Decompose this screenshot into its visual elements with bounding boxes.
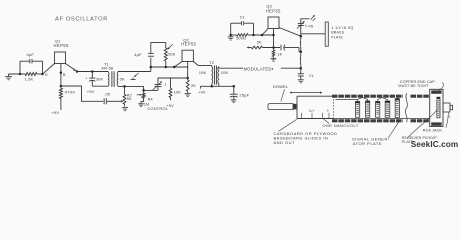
leader (rca jack)	[446, 112, 449, 127]
wire Q2 collector to T2	[198, 65, 212, 67]
node 500 bottom	[165, 66, 168, 69]
node T2 primary bottom	[211, 85, 214, 88]
wire	[254, 34, 274, 36]
capacitor 25uF	[230, 86, 250, 99]
wire +9V rail (T1)	[92, 85, 108, 87]
svg-text:CONTROL: CONTROL	[147, 106, 168, 111]
svg-text:5K: 5K	[127, 97, 132, 101]
Q1 base lead	[60, 64, 66, 89]
capacitor .05	[104, 92, 111, 105]
svg-text:ATOR PLATE: ATOR PLATE	[353, 141, 382, 146]
resistor 1.5K	[25, 73, 38, 82]
svg-text:AF OSCILLATOR: AF OSCILLATOR	[55, 17, 108, 23]
svg-text:PLATE: PLATE	[331, 35, 343, 39]
plate jumper 3-4	[378, 98, 388, 102]
node decoupling cap	[91, 70, 94, 73]
label brass plate	[331, 26, 353, 39]
svg-text:1.5K: 1.5K	[25, 76, 34, 81]
wire (cap to R4)	[144, 89, 158, 91]
svg-text:T2: T2	[209, 60, 215, 65]
node Q3 emitter	[272, 46, 275, 49]
tube break squiggle	[405, 93, 407, 122]
leader (one nanovolt)	[324, 119, 330, 123]
watermark SeekIC.com	[411, 140, 458, 149]
label CONTROL	[147, 106, 168, 111]
signal generator brass plate	[325, 22, 328, 46]
wire	[77, 71, 108, 73]
attenuator plate 5	[395, 99, 399, 118]
svg-text:DOWEL: DOWEL	[273, 84, 289, 89]
svg-text:25µF: 25µF	[239, 92, 249, 97]
svg-text:1 1/2 IN SQ: 1 1/2 IN SQ	[332, 26, 354, 30]
ground (tank)	[228, 35, 234, 40]
plate 5 stem	[396, 97, 398, 99]
tube section divider	[333, 96, 335, 118]
svg-text:HEP55: HEP55	[54, 43, 69, 48]
antenna stub	[301, 19, 310, 23]
potentiometer R2 5K	[123, 86, 132, 106]
ground (2K)	[185, 94, 191, 97]
svg-text:MODULATED: MODULATED	[244, 66, 272, 71]
radiation arrow	[311, 15, 316, 21]
svg-text:470K: 470K	[65, 90, 76, 95]
wire loop top	[151, 42, 166, 44]
svg-text:10K: 10K	[199, 70, 207, 75]
svg-text:5K: 5K	[257, 41, 262, 45]
node modulated output	[300, 67, 303, 70]
svg-text:MUST BE TIGHT: MUST BE TIGHT	[398, 84, 429, 88]
wire +9V rail (T2)	[201, 86, 234, 88]
attenuator feed wire	[336, 99, 358, 101]
transformer T2	[199, 60, 229, 86]
dowel rod	[268, 104, 296, 110]
emitter resistor 5K with supply arrow	[247, 46, 281, 49]
copper tube bottom wall	[332, 118, 430, 120]
capacitor .1 with arrow	[153, 78, 167, 90]
wire to signal generator plate	[301, 33, 325, 35]
node Q2 emitter	[173, 66, 176, 69]
svg-text:SeekIC.com: SeekIC.com	[411, 140, 458, 149]
wire MODULATED right	[281, 67, 301, 69]
wire loop bottom	[151, 67, 188, 72]
label +9V (T2)	[198, 90, 206, 95]
wire	[9, 73, 26, 75]
wire (base feedback)	[61, 86, 103, 101]
svg-text:E: E	[45, 72, 48, 77]
svg-text:B: B	[63, 72, 66, 77]
svg-text:+9V: +9V	[87, 89, 95, 94]
attenuator plate 3	[376, 102, 380, 118]
label COPPER END CAP	[398, 80, 435, 88]
ground (output cap)	[298, 80, 304, 83]
svg-text:HEP55: HEP55	[181, 41, 196, 46]
output tap arrow	[131, 73, 139, 80]
attenuator plate 2	[366, 101, 370, 117]
svg-text:5K: 5K	[120, 76, 125, 81]
node loop bottom-left	[150, 66, 153, 69]
Q2 base lead	[187, 62, 189, 79]
attenuator plate 4	[385, 101, 390, 117]
node Q1 base junction	[60, 85, 63, 88]
svg-text:500: 500	[168, 52, 176, 57]
node Q2 base	[186, 77, 189, 80]
svg-text:AR-56: AR-56	[101, 65, 114, 70]
cardboard tube outline	[297, 96, 334, 118]
leader (dowel)	[281, 89, 285, 101]
svg-text:30K: 30K	[96, 77, 104, 82]
svg-text:C: C	[73, 67, 76, 72]
attenuator plate 1	[356, 102, 360, 118]
transistor Q3	[266, 4, 281, 29]
wire MODULATED left	[219, 67, 243, 69]
inductor L2 (coupling coil)	[299, 52, 301, 68]
wire to tank	[299, 48, 301, 52]
svg-text:+9V: +9V	[52, 110, 60, 115]
label +9V (T1)	[87, 89, 95, 94]
svg-text:1K: 1K	[277, 52, 282, 56]
trimmer capacitor T-45	[297, 21, 313, 39]
node Q3 base bottom	[261, 34, 264, 37]
svg-text:.05: .05	[104, 92, 111, 97]
svg-text:+9V: +9V	[198, 90, 206, 95]
svg-text:500Ω: 500Ω	[236, 36, 246, 40]
transistor Q2	[181, 37, 196, 61]
label +9V (10K)	[166, 103, 174, 108]
resistor 2K	[186, 78, 196, 93]
label SIGNAL GENERATOR PLATE	[352, 136, 390, 145]
resistor 500 ohm	[231, 34, 254, 41]
node Q1 collector	[76, 70, 79, 73]
copper tube top wall	[332, 95, 430, 98]
svg-text:10K: 10K	[174, 89, 182, 94]
label RECEIVER PICKUP PLATE	[402, 136, 437, 144]
node	[252, 34, 255, 37]
transistor Q1	[54, 39, 69, 64]
ground G1	[5, 74, 12, 80]
receiver pickup plate (in cap)	[437, 97, 440, 118]
svg-text:R4: R4	[148, 98, 153, 102]
Q2 collector lead	[193, 62, 198, 66]
svg-text:10K: 10K	[221, 70, 229, 75]
node R2 top	[123, 85, 126, 88]
svg-text:4µF: 4µF	[27, 52, 35, 57]
svg-text:4µF: 4µF	[134, 52, 142, 57]
leader (signal plate)	[388, 120, 400, 139]
Q1 collector lead	[66, 64, 78, 72]
svg-text:.1: .1	[163, 83, 166, 87]
Q2 emitter lead	[174, 62, 182, 68]
capacitor (emitter bypass)	[281, 45, 299, 51]
capacitor 4uF (stage 2)	[134, 43, 154, 68]
ground (1K)	[271, 58, 277, 61]
svg-text:2K: 2K	[191, 83, 196, 88]
svg-text:C1: C1	[309, 74, 314, 78]
svg-text:C1: C1	[240, 15, 245, 19]
capacitor C1 (tank)	[231, 15, 254, 35]
rca jack J1	[443, 103, 453, 119]
potentiometer 500	[164, 43, 176, 68]
wire T1 secondary bottom	[118, 85, 125, 87]
leader (end cap)	[439, 83, 444, 91]
node	[300, 51, 303, 54]
label ONE NANOVOLT	[322, 123, 358, 128]
Q3 emitter lead	[272, 29, 275, 48]
svg-text:ONE NANOVOLT: ONE NANOVOLT	[322, 123, 358, 128]
label 5K	[257, 41, 262, 45]
label CARDBOARD	[274, 131, 338, 145]
leader (cardboard)	[279, 119, 297, 131]
svg-text:AND OUT: AND OUT	[274, 140, 296, 145]
label MODULATED	[244, 66, 273, 71]
svg-text:BRASS: BRASS	[331, 31, 344, 35]
Q3 collector lead	[279, 28, 301, 37]
capacitor 4uF (stage 1)	[20, 52, 43, 74]
title AF OSCILLATOR	[55, 17, 108, 23]
resistor 470K	[59, 88, 75, 98]
ground (25uF)	[231, 100, 237, 103]
transformer T1	[96, 62, 125, 87]
wire base rail	[158, 77, 188, 79]
ground (R2)	[122, 108, 128, 111]
svg-text:+: +	[85, 77, 87, 81]
potentiometer R4 1M	[137, 86, 153, 106]
Q3 base lead	[262, 29, 268, 35]
leader (pickup plate)	[407, 110, 437, 139]
resistor 1K	[272, 48, 282, 59]
resistor 10K (bias)	[169, 78, 181, 100]
wire to +9V	[60, 99, 62, 110]
copper end cap	[430, 89, 443, 126]
svg-text:HEP55: HEP55	[266, 8, 281, 13]
wire	[37, 73, 43, 75]
node at left of C1/R1	[19, 73, 22, 76]
scale ticks	[302, 108, 330, 118]
plate jumper 1-2	[358, 97, 368, 101]
svg-text:1µV: 1µV	[309, 109, 315, 113]
wire mid rail	[125, 85, 144, 87]
label +9V (470K)	[52, 110, 60, 115]
node tank/collector	[300, 35, 303, 38]
wire T1 secondary top	[118, 71, 151, 73]
wire + wiper arrow to R2	[107, 100, 123, 102]
label RCA JACK	[423, 128, 443, 132]
slide arrow	[290, 92, 323, 94]
node E	[41, 72, 48, 77]
svg-text:RCA JACK: RCA JACK	[423, 128, 443, 132]
svg-text:9: 9	[327, 108, 329, 112]
node 25uF top	[233, 85, 236, 88]
inductor L1 (tank coil)	[299, 39, 301, 52]
Q1 emitter lead	[43, 64, 55, 74]
node tank left	[229, 34, 232, 37]
capacitor C1 (output)	[298, 68, 314, 79]
svg-text:T-45: T-45	[305, 23, 313, 28]
capacitor + (electrolytic, T1 primary)	[85, 72, 95, 87]
node R4 top	[142, 89, 145, 92]
label DOWEL	[273, 84, 289, 89]
ground (R4)	[138, 104, 144, 107]
